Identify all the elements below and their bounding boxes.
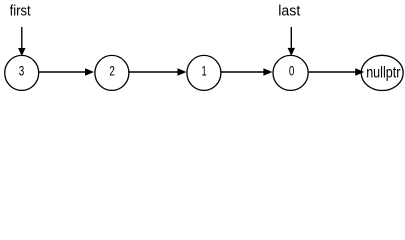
wire: arrow from node 1 to node 0 — [221, 68, 272, 75]
svg-text:3: 3 — [19, 63, 25, 79]
svg-text:2: 2 — [109, 63, 115, 79]
node 2 — [95, 55, 129, 90]
svg-text:last: last — [278, 4, 300, 20]
wire: arrow from node 3 to node 2 — [39, 68, 94, 75]
svg-text:first: first — [10, 4, 31, 20]
node 1 — [187, 55, 221, 90]
svg-text:nullptr: nullptr — [366, 65, 401, 82]
node 3 (list head circle) — [5, 55, 39, 90]
node nullptr (terminator ellipse) — [361, 55, 403, 90]
svg-text:1: 1 — [202, 63, 207, 79]
node 0 (list tail circle) — [273, 55, 308, 90]
wire: arrow from node 0 to nullptr — [308, 68, 364, 75]
svg-text:0: 0 — [289, 63, 295, 79]
wire: arrow from "first" down to node 3 — [18, 27, 25, 56]
wire: arrow from "last" down to node 0 — [288, 27, 295, 56]
wire: arrow from node 2 to node 1 — [129, 68, 187, 75]
